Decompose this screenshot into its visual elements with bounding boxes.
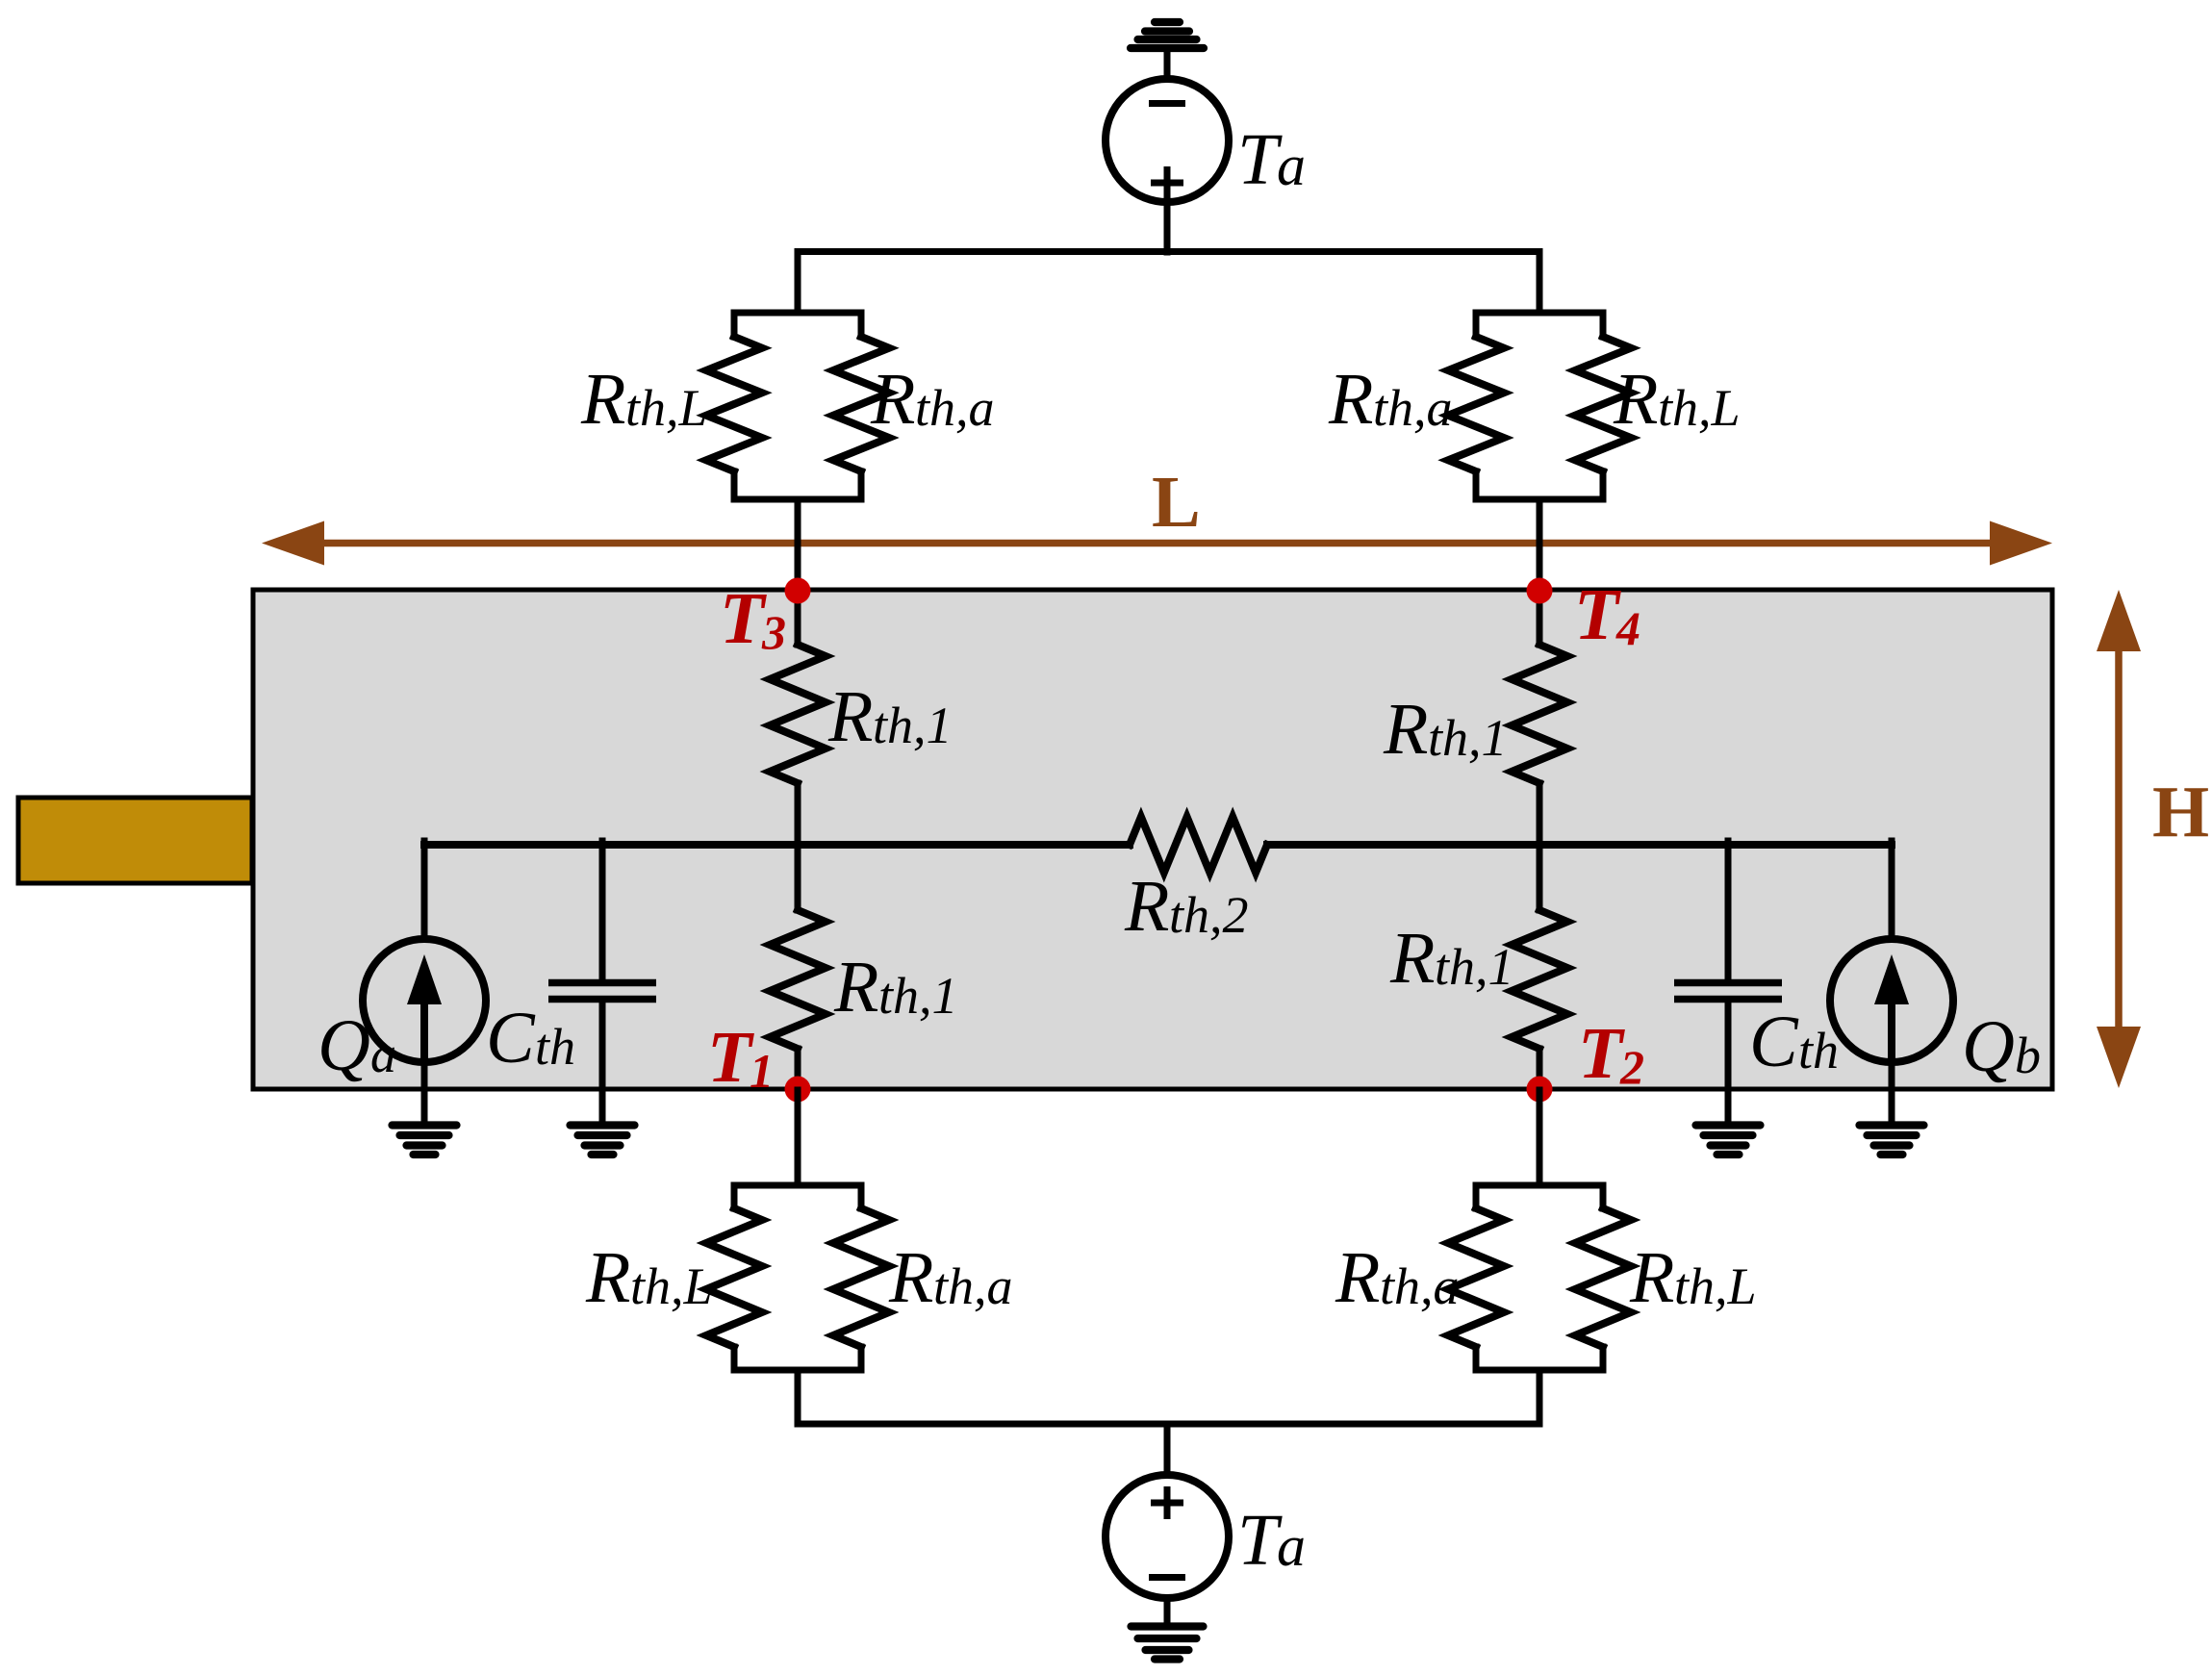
svg-text:th,1: th,1 xyxy=(873,697,953,754)
svg-text:T: T xyxy=(707,1017,754,1098)
svg-text:th: th xyxy=(535,1018,575,1076)
label T2 xyxy=(1578,1013,1644,1094)
label Rth,L (top-right) xyxy=(1613,359,1741,440)
svg-text:1: 1 xyxy=(750,1044,774,1098)
dimension arrow L xyxy=(262,521,2052,566)
wire: bottom-left pair to bottom rail xyxy=(795,1370,801,1424)
svg-text:a: a xyxy=(1277,134,1306,197)
wire: mid rail right segment xyxy=(1267,841,1892,849)
label Ta (top) xyxy=(1237,119,1306,200)
wire: node T1 to bottom-left pair xyxy=(795,1090,801,1185)
svg-text:b: b xyxy=(2015,1027,2041,1084)
label Qa xyxy=(318,1005,396,1086)
slab body (gray rectangle) xyxy=(253,590,2052,1089)
svg-text:R: R xyxy=(1629,1237,1674,1318)
wire: Ta bottom to ground xyxy=(1164,1598,1171,1624)
label Cth (right) xyxy=(1749,1002,1839,1082)
wire: mid rail to Qb xyxy=(1889,841,1895,940)
svg-text:R: R xyxy=(585,1237,630,1318)
label T1 xyxy=(707,1017,774,1098)
wire: mid rail to Cth right xyxy=(1725,841,1732,980)
resistor Rth,2 xyxy=(1130,817,1267,873)
svg-text:Q: Q xyxy=(1962,1006,2015,1087)
node T3 xyxy=(785,578,811,604)
svg-text:th,L: th,L xyxy=(630,1257,713,1315)
ground (under Qb) xyxy=(1860,1126,1924,1155)
svg-text:th: th xyxy=(1798,1022,1839,1079)
svg-text:th,a: th,a xyxy=(933,1257,1013,1315)
svg-text:T: T xyxy=(1237,119,1283,200)
wire: Qa to ground xyxy=(421,1062,428,1122)
heater block (gold rectangle) xyxy=(18,798,252,883)
svg-text:R: R xyxy=(833,947,878,1028)
capacitor Cth (left) xyxy=(548,983,656,1000)
ground (under Qa) xyxy=(393,1126,457,1155)
svg-text:T: T xyxy=(720,578,767,659)
svg-text:th,L: th,L xyxy=(625,379,708,437)
label Rth,a (bottom-left) xyxy=(888,1237,1013,1318)
svg-text:R: R xyxy=(1389,918,1435,999)
svg-text:a: a xyxy=(370,1026,396,1083)
svg-text:th,L: th,L xyxy=(1674,1257,1757,1315)
ground (under Cth left) xyxy=(571,1126,635,1155)
svg-text:R: R xyxy=(1383,689,1428,770)
svg-text:th,a: th,a xyxy=(915,379,995,437)
current source Qb xyxy=(1830,939,1953,1064)
label Cth (left) xyxy=(486,998,575,1079)
svg-text:th,1: th,1 xyxy=(1435,938,1514,996)
voltage source Ta (bottom) xyxy=(1106,1475,1229,1598)
label Rth,2 xyxy=(1124,866,1249,947)
wire: Cth right to ground xyxy=(1725,1002,1732,1122)
node T4 xyxy=(1527,578,1553,604)
svg-text:th,L: th,L xyxy=(1658,379,1741,437)
svg-text:L: L xyxy=(1152,462,1201,543)
label Rth,1 (upper-right) xyxy=(1383,689,1508,770)
svg-text:C: C xyxy=(1749,1002,1799,1082)
svg-text:R: R xyxy=(1335,1237,1380,1318)
resistor pair Rth,a / Rth,L (bottom-right) xyxy=(1448,1185,1631,1370)
resistor pair Rth,L / Rth,a (bottom-left) xyxy=(706,1185,889,1370)
wire: mid rail left segment xyxy=(424,841,1130,849)
node T1 xyxy=(785,1077,811,1103)
svg-text:2: 2 xyxy=(1619,1040,1644,1094)
svg-text:th,2: th,2 xyxy=(1169,886,1249,944)
capacitor Cth (right) xyxy=(1674,983,1782,1000)
resistor pair Rth,L / Rth,a (top-left) xyxy=(706,313,889,499)
label Rth,a (top-left) xyxy=(870,359,995,440)
resistor Rth,1 (lower-right) xyxy=(1512,845,1567,1090)
svg-text:th,1: th,1 xyxy=(878,967,958,1025)
wire: Cth left to ground xyxy=(599,1002,606,1122)
wire: node T2 to bottom-right pair xyxy=(1537,1090,1543,1185)
label Rth,L (top-left) xyxy=(580,359,708,440)
wire: Qb to ground xyxy=(1889,1062,1895,1122)
svg-text:th,1: th,1 xyxy=(1428,709,1508,767)
svg-text:H: H xyxy=(2152,772,2209,852)
label Rth,L (bottom-right) xyxy=(1629,1237,1757,1318)
wire: mid rail to Cth left xyxy=(599,841,606,980)
wire: top rail xyxy=(798,248,1539,255)
svg-text:a: a xyxy=(1277,1514,1306,1578)
svg-text:R: R xyxy=(888,1237,933,1318)
wire: bottom-right pair to bottom rail xyxy=(1537,1370,1543,1424)
current source Qa xyxy=(363,939,486,1064)
svg-text:3: 3 xyxy=(761,605,786,659)
resistor pair Rth,a / Rth,L (top-right) xyxy=(1448,313,1631,499)
ground (top, above Ta source) xyxy=(1131,22,1204,81)
resistor Rth,1 (upper-right) xyxy=(1512,590,1567,845)
wire: Ta top to rail xyxy=(1164,202,1171,252)
dimension arrow H xyxy=(2097,590,2141,1088)
svg-text:R: R xyxy=(1328,359,1373,440)
label T3 xyxy=(720,578,786,659)
label Rth,1 (lower-right) xyxy=(1389,918,1514,999)
wire: mid rail to Qa xyxy=(421,841,428,940)
svg-text:R: R xyxy=(827,676,873,757)
svg-text:R: R xyxy=(580,359,625,440)
svg-text:R: R xyxy=(1124,866,1169,947)
label T4 xyxy=(1574,574,1640,655)
ground (under Cth right) xyxy=(1696,1126,1761,1155)
label Rth,1 (upper-left) xyxy=(827,676,953,757)
wire: top-right pair to node T4 xyxy=(1537,499,1543,590)
svg-text:th,a: th,a xyxy=(1373,379,1453,437)
wire: rail to top-right pair xyxy=(1537,252,1543,314)
label Rth,a (top-right) xyxy=(1328,359,1453,440)
label Qb xyxy=(1962,1006,2041,1087)
svg-text:T: T xyxy=(1578,1013,1625,1094)
label Rth,1 (lower-left) xyxy=(833,947,958,1028)
wire: top-left pair to node T3 xyxy=(795,499,801,590)
wire: bottom rail to Ta bottom xyxy=(1164,1424,1171,1476)
svg-text:T: T xyxy=(1237,1500,1283,1581)
svg-text:C: C xyxy=(486,998,536,1079)
svg-text:R: R xyxy=(870,359,915,440)
label Rth,a (bottom-right) xyxy=(1335,1237,1460,1318)
resistor Rth,1 (lower-left) xyxy=(770,845,826,1090)
label Rth,L (bottom-left) xyxy=(585,1237,713,1318)
svg-text:T: T xyxy=(1574,574,1621,655)
svg-text:R: R xyxy=(1613,359,1658,440)
wire: rail to top-left pair xyxy=(795,252,801,314)
label Ta (bottom) xyxy=(1237,1500,1306,1581)
svg-text:th,a: th,a xyxy=(1380,1257,1460,1315)
ground (bottom, below Ta source) xyxy=(1131,1627,1204,1660)
voltage source Ta (top) xyxy=(1106,79,1229,202)
svg-text:Q: Q xyxy=(318,1005,370,1086)
node T2 xyxy=(1527,1077,1553,1103)
resistor Rth,1 (upper-left) xyxy=(770,590,826,845)
svg-text:4: 4 xyxy=(1615,601,1640,655)
wire: bottom rail xyxy=(798,1421,1539,1428)
